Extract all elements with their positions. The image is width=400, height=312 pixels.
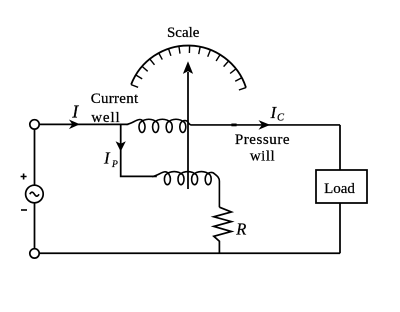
svg-text:Scale: Scale [167,25,200,41]
svg-text:Current: Current [91,91,139,107]
svg-text:C: C [277,113,285,124]
svg-text:Pressure: Pressure [235,132,290,148]
svg-text:Load: Load [324,181,355,197]
svg-text:well: well [91,110,120,126]
svg-text:will: will [250,149,275,165]
svg-text:I: I [71,102,79,122]
svg-text:R: R [235,219,246,238]
svg-text:P: P [111,160,118,170]
